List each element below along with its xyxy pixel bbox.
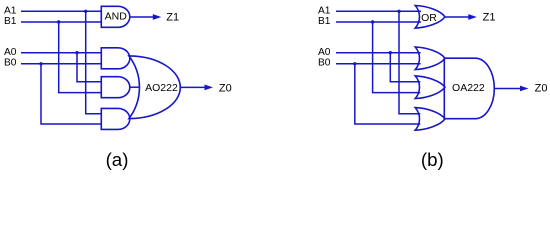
wire B1 branch to OR2 pin2 (b) — [373, 22, 421, 93]
arrowhead Z1 (b) — [468, 14, 477, 20]
svg-text:A0: A0 — [318, 47, 331, 58]
wire B0 branch to AND3 pin2 (a) — [41, 64, 101, 124]
svg-text:Z1: Z1 — [166, 12, 179, 24]
arrowhead Z0 (a) — [205, 85, 214, 91]
or-gate AO222 3-input OR (a) — [129, 56, 180, 119]
junction dot on A1 (a) — [84, 10, 87, 13]
wire input B1 (a) — [21, 21, 101, 23]
junction dot on B0 (a) — [39, 62, 42, 65]
svg-text:A1: A1 — [318, 6, 331, 17]
or-gate OR1 of OA222 (b) — [415, 47, 445, 70]
junction dot on B1 (a) — [57, 20, 60, 23]
wire input B0 (b) — [336, 63, 421, 65]
arrowhead Z1 (a) — [153, 14, 162, 20]
svg-text:B0: B0 — [4, 58, 17, 69]
wire input A1 (b) — [336, 10, 421, 12]
wire A0 branch to OR2 pin1 (b) — [390, 53, 420, 82]
junction dot on A1 (b) — [397, 10, 400, 13]
or-gate OR3 of OA222 (b) — [415, 108, 445, 131]
svg-text:Z0: Z0 — [535, 83, 548, 95]
svg-text:OA222: OA222 — [452, 82, 485, 94]
junction dot on A0 (b) — [389, 51, 392, 54]
and-gate AND2 of AO222 (a) — [101, 77, 130, 98]
wire Z1 output (b) — [445, 16, 469, 18]
wire A1 branch to OR3 pin1 (b) — [399, 11, 420, 114]
wire input B1 (b) — [336, 21, 421, 23]
and-gate AND3 of AO222 (a) — [101, 108, 130, 129]
svg-text:Z1: Z1 — [483, 12, 496, 24]
svg-text:OR: OR — [421, 12, 437, 24]
wire AND2 output stub to OR (a) — [130, 86, 140, 88]
svg-text:B0: B0 — [318, 58, 331, 69]
svg-text:AO222: AO222 — [145, 82, 178, 94]
or-gate OR2 of OA222 (b) — [415, 76, 445, 99]
wire Z1 output (a) — [130, 16, 154, 18]
wire Z0 output (b) — [494, 87, 520, 89]
svg-text:A1: A1 — [4, 6, 17, 17]
wire input A0 (b) — [336, 52, 421, 54]
and-gate OA222 3-input AND (b) — [444, 58, 494, 118]
or-gate OR (Z1) (b) — [415, 6, 445, 29]
svg-text:Z0: Z0 — [219, 82, 232, 94]
wire input A0 (a) — [21, 52, 101, 54]
svg-text:(a): (a) — [106, 149, 129, 170]
junction dot on A0 (a) — [75, 51, 78, 54]
and-gate AND (Z1) (a) — [101, 6, 130, 27]
wire B0 branch to OR3 pin2 (b) — [355, 64, 421, 124]
svg-text:AND: AND — [105, 11, 128, 23]
wire B1 branch to AND2 pin2 (a) — [59, 22, 102, 93]
wire A0 branch to AND2 pin1 (a) — [77, 53, 101, 82]
wire A1 branch to AND3 pin1 (a) — [86, 11, 102, 114]
wire input B0 (a) — [21, 63, 101, 65]
wire input A1 (a) — [21, 10, 101, 12]
svg-text:B1: B1 — [4, 16, 17, 27]
svg-text:B1: B1 — [318, 16, 331, 27]
arrowhead Z0 (b) — [520, 86, 529, 92]
svg-text:(b): (b) — [421, 149, 444, 170]
junction dot on B1 (b) — [371, 20, 374, 23]
svg-text:A0: A0 — [4, 47, 17, 58]
wire Z0 output (a) — [180, 86, 205, 88]
junction dot on B0 (b) — [353, 62, 356, 65]
and-gate AND1 of AO222 (a) — [101, 48, 130, 69]
